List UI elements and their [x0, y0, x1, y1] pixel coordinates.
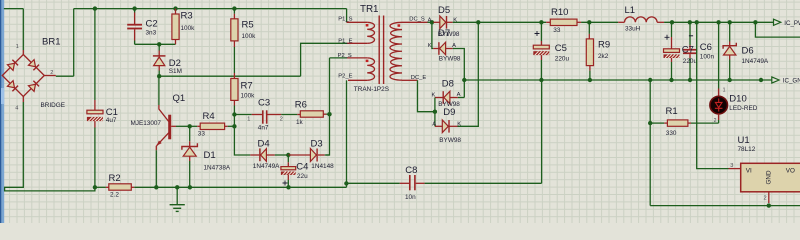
svg-text:100k: 100k: [241, 92, 256, 99]
wire D8K-D9A link: [434, 98, 436, 127]
junction R5 top: [232, 6, 236, 10]
svg-text:IC_GND: IC_GND: [783, 78, 800, 85]
junction C2 top: [132, 6, 136, 10]
svg-text:BRIDGE: BRIDGE: [41, 102, 66, 109]
junction C7 top: [670, 20, 674, 24]
wire D7 cathode riser: [432, 22, 433, 48]
svg-text:DC_S: DC_S: [409, 17, 425, 23]
svg-text:2: 2: [280, 116, 283, 122]
svg-text:100k: 100k: [242, 33, 257, 40]
svg-text:100n: 100n: [700, 53, 715, 60]
junction rail end: [759, 78, 763, 82]
svg-text:2: 2: [50, 70, 53, 76]
capacitor C5: [533, 22, 554, 80]
svg-text:33uH: 33uH: [625, 26, 641, 33]
svg-text:R1: R1: [666, 106, 678, 117]
diode D6 zener: [723, 22, 736, 80]
wire D9 cathode to +rail: [458, 22, 479, 126]
resistor R2: [95, 184, 134, 190]
svg-text:1: 1: [247, 116, 250, 122]
wire riser R7-R4-D4: [234, 115, 250, 156]
junction C1 top: [93, 6, 97, 10]
diode D1 zener: [182, 126, 198, 187]
svg-text:33: 33: [553, 27, 561, 34]
svg-text:D3: D3: [311, 139, 323, 150]
inductor L1: [618, 17, 773, 22]
svg-text:GND: GND: [766, 170, 773, 184]
wire D7 anode to GND rail riser: [453, 49, 465, 98]
svg-text:4u7: 4u7: [106, 117, 117, 124]
svg-text:1N4738A: 1N4738A: [204, 164, 231, 171]
wire U1 feed riser: [697, 22, 729, 168]
ground: [170, 187, 185, 211]
wire R1 net vertical: [649, 80, 651, 206]
wire bridge pin2 to riser: [56, 75, 74, 77]
svg-text:VO: VO: [786, 167, 795, 174]
junction D2 bottom: [157, 74, 161, 78]
svg-text:P2_S: P2_S: [338, 53, 352, 59]
svg-text:C7: C7: [682, 44, 694, 55]
svg-text:C4: C4: [296, 162, 308, 173]
svg-text:C3: C3: [258, 98, 270, 109]
wire riser to top rail: [73, 9, 75, 77]
junction C6 top: [688, 20, 692, 24]
resistor R1: [650, 120, 718, 126]
junction C5 top: [539, 20, 543, 24]
svg-text:R7: R7: [241, 81, 253, 92]
plus mark C7: [665, 35, 670, 40]
capacitor C1: [87, 9, 109, 188]
diode D5: [433, 16, 452, 29]
svg-text:C8: C8: [405, 165, 417, 176]
junction D5 anode: [430, 20, 434, 24]
junction P2_E bottom: [344, 181, 348, 185]
junction D1 top: [188, 124, 192, 128]
svg-text:100k: 100k: [181, 25, 196, 32]
junction ground stem: [175, 185, 179, 189]
svg-text:1k: 1k: [296, 119, 304, 126]
junction C4 bottom: [286, 185, 290, 189]
wire DC_E drop: [418, 80, 435, 111]
svg-text:S1M: S1M: [169, 68, 182, 75]
wire U1 ground: [650, 205, 800, 207]
resistor R3: [172, 9, 179, 45]
wire GND rail: [464, 79, 772, 81]
diode D2: [153, 44, 166, 76]
svg-text:1: 1: [16, 44, 19, 50]
svg-text:P2_E: P2_E: [338, 73, 352, 79]
junction C7 bottom: [669, 78, 673, 82]
svg-text:D8: D8: [442, 79, 454, 90]
svg-text:10n: 10n: [405, 194, 416, 201]
junction D1 bottom: [188, 185, 192, 189]
junction D6 top: [728, 20, 732, 24]
svg-text:2.2: 2.2: [110, 191, 119, 198]
svg-text:C5: C5: [555, 43, 567, 54]
svg-text:LED-RED: LED-RED: [729, 105, 757, 112]
svg-text:MJE13007: MJE13007: [130, 120, 161, 127]
svg-text:D6: D6: [742, 45, 754, 56]
wire bridge pin4 down: [5, 102, 95, 191]
capacitor C6: [683, 22, 697, 80]
resistor R4: [190, 123, 235, 129]
junction D2 top: [157, 42, 161, 46]
resistor R9: [586, 22, 593, 80]
svg-text:DC_E: DC_E: [411, 75, 427, 81]
svg-text:P1_S: P1_S: [338, 17, 352, 23]
junction R4 right: [232, 124, 236, 128]
svg-text:C6: C6: [700, 42, 712, 53]
diode D9: [435, 120, 458, 133]
svg-text:22u: 22u: [297, 173, 308, 180]
svg-text:D7: D7: [438, 28, 450, 39]
diode D4 zener: [250, 147, 288, 163]
transistor Q1: [156, 76, 189, 187]
resistor R5: [231, 9, 238, 73]
junction D4/D3/C4: [286, 153, 290, 157]
svg-text:D10: D10: [729, 94, 746, 105]
svg-text:A: A: [432, 122, 436, 128]
resistor R6: [297, 111, 329, 117]
LED D10: [710, 89, 728, 124]
wire + rail: [453, 21, 547, 23]
junction branch top-right: [753, 20, 757, 24]
wire top-left rail: [74, 8, 347, 10]
junction R9 top: [587, 20, 591, 24]
svg-text:330: 330: [666, 130, 677, 137]
svg-text:D9: D9: [443, 107, 455, 118]
svg-text:2: 2: [764, 196, 767, 202]
junction Q1 emitter bottom: [154, 185, 158, 189]
svg-text:BYW98: BYW98: [439, 137, 461, 144]
capacitor C8: [400, 175, 542, 190]
svg-text:D5: D5: [438, 5, 450, 16]
svg-text:IC_PWR: IC_PWR: [784, 20, 800, 27]
svg-text:P1_E: P1_E: [338, 39, 352, 45]
svg-text:R10: R10: [551, 7, 568, 18]
svg-text:220u: 220u: [555, 56, 570, 63]
wire bridge pin1 riser: [22, 9, 24, 50]
svg-text:1N4749A: 1N4749A: [742, 58, 769, 65]
polarity mark C6: [689, 35, 693, 37]
svg-text:TRAN-1P2S: TRAN-1P2S: [354, 86, 389, 93]
diode D8: [435, 91, 464, 104]
svg-text:3n3: 3n3: [146, 30, 157, 37]
junction C5 bottom: [539, 78, 543, 82]
svg-text:1N4749A: 1N4749A: [253, 163, 280, 170]
svg-text:R2: R2: [109, 173, 121, 184]
capacitor C4: [281, 155, 302, 187]
svg-text:TR1: TR1: [360, 4, 379, 15]
svg-text:4n7: 4n7: [258, 124, 269, 131]
junction D6 bottom: [728, 78, 732, 82]
svg-text:A: A: [428, 18, 432, 24]
wire P2_S riser: [326, 58, 330, 155]
wire P2_S row: [330, 57, 348, 59]
window edge strip: [0, 0, 1, 223]
wire P1_S feed: [346, 9, 348, 23]
junction D9 riser top: [476, 20, 480, 24]
wire LED riser: [718, 22, 720, 88]
svg-text:L1: L1: [625, 5, 636, 16]
junction R1 net: [648, 78, 652, 82]
svg-text:BYW98: BYW98: [439, 56, 461, 63]
svg-text:4: 4: [15, 105, 18, 111]
junction mid rectifier: [433, 110, 437, 114]
wire P1_E riser: [301, 43, 347, 76]
svg-text:78L12: 78L12: [738, 146, 756, 153]
svg-text:220u: 220u: [683, 58, 698, 65]
terminal IC_PWR: [774, 19, 800, 27]
diode D3: [288, 149, 329, 162]
svg-text:Q1: Q1: [173, 93, 186, 104]
wire DC_S to D5: [428, 21, 434, 23]
wire C2 row: [135, 43, 176, 45]
junction DC_E rail start: [462, 78, 466, 82]
junction R6 right: [327, 112, 331, 116]
capacitor C7: [664, 22, 685, 80]
capacitor C2: [127, 9, 142, 45]
junction U1 feed top: [695, 20, 699, 24]
svg-text:R4: R4: [203, 111, 215, 122]
svg-text:C2: C2: [146, 19, 158, 30]
wire C5 riser to bottom rail: [541, 80, 543, 183]
svg-text:U1: U1: [738, 135, 750, 146]
svg-text:2k2: 2k2: [598, 53, 609, 60]
junction C6 bottom: [688, 78, 692, 82]
svg-text:A: A: [457, 92, 461, 98]
svg-text:3: 3: [730, 163, 733, 169]
junction R1 left: [648, 121, 652, 125]
junction R3 top: [173, 6, 177, 10]
svg-text:R6: R6: [295, 100, 307, 111]
svg-text:1: 1: [723, 88, 726, 94]
wire mid-left rail: [159, 75, 300, 77]
junction R9 bottom: [588, 78, 592, 82]
svg-text:R9: R9: [598, 40, 610, 51]
svg-text:D1: D1: [204, 150, 216, 161]
junction U1 GND pin: [767, 203, 771, 207]
junction LED riser top: [716, 20, 720, 24]
resistor R7: [231, 73, 238, 115]
plus mark C4: [283, 181, 288, 186]
svg-text:D4: D4: [258, 139, 270, 150]
svg-text:33: 33: [198, 131, 206, 138]
bridge rectifier BR1: [2, 50, 56, 102]
svg-text:K: K: [428, 43, 432, 49]
diode D7: [433, 42, 453, 55]
resistor R10: [546, 19, 618, 25]
svg-text:1N4148: 1N4148: [311, 163, 334, 170]
regulator U1 78L12: [729, 163, 800, 203]
junction C1/R2: [93, 185, 97, 189]
svg-text:BR1: BR1: [42, 37, 60, 48]
plus mark C5: [535, 31, 540, 36]
wire bottom-left rail: [134, 186, 346, 188]
capacitor C3: [234, 110, 297, 123]
svg-text:R5: R5: [242, 20, 254, 31]
wire branch to right edge: [755, 22, 800, 37]
junction R7 bottom: [232, 112, 236, 116]
wire AC input stub top-left: [4, 8, 24, 10]
transformer TR1: [347, 16, 428, 85]
wire P2_E riser to bottom rail: [346, 80, 348, 187]
svg-text:VI: VI: [746, 167, 752, 174]
wire bottom rail right part: [347, 182, 400, 184]
terminal IC_GND: [772, 77, 800, 85]
svg-text:R3: R3: [181, 11, 193, 22]
